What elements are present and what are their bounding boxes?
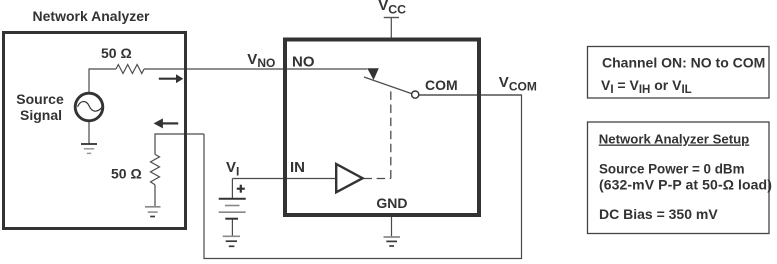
Network Analyzer box: [4, 33, 186, 229]
wire battery to ground: [231, 219, 233, 236]
ground (below R2): [145, 207, 161, 217]
svg-text:IN: IN: [290, 159, 305, 176]
svg-text:DC Bias = 350 mV: DC Bias = 350 mV: [599, 206, 718, 222]
wire source top to resistor R1: [89, 69, 116, 94]
svg-text:Network Analyzer Setup: Network Analyzer Setup: [599, 132, 749, 147]
svg-text:GND: GND: [376, 195, 407, 211]
svg-text:COM: COM: [425, 77, 458, 93]
wire VI node down to battery: [231, 179, 233, 199]
note box 1: [588, 47, 770, 99]
arrow left (return direction): [163, 122, 179, 124]
resistor R1 (horizontal zigzag): [116, 65, 144, 74]
dashed control line horizontal: [364, 178, 391, 180]
dashed control line vertical: [390, 89, 392, 179]
svg-text:Source Power = 0 dBm: Source Power = 0 dBm: [599, 162, 745, 177]
note box 2: [588, 122, 770, 234]
svg-text:VCC: VCC: [378, 0, 406, 16]
ground (below GND pin): [384, 237, 401, 246]
switch blade: [364, 77, 412, 94]
svg-text:50 Ω: 50 Ω: [111, 166, 142, 182]
source V1 (AC source circle): [75, 93, 103, 121]
svg-text:Source: Source: [16, 91, 64, 107]
svg-text:50 Ω: 50 Ω: [101, 45, 132, 61]
svg-text:(632-mV P-P at 50-Ω load): (632-mV P-P at 50-Ω load): [599, 177, 772, 193]
battery V2 plus sign: [237, 188, 245, 190]
svg-text:Channel ON: NO to COM: Channel ON: NO to COM: [602, 54, 765, 70]
buffer U1a (triangle): [336, 164, 362, 192]
switch IC U1 box: [285, 40, 479, 216]
svg-text:Signal: Signal: [20, 107, 62, 123]
wire node to R2 top: [155, 134, 204, 154]
svg-text:Network Analyzer: Network Analyzer: [33, 8, 151, 24]
svg-text:NO: NO: [292, 54, 315, 71]
switch contact (filled triangle): [367, 68, 379, 80]
resistor R2 (vertical zigzag): [151, 154, 160, 184]
switch pole circle: [412, 91, 419, 98]
wire source bottom to ground: [88, 121, 90, 145]
arrow right (source direction): [159, 78, 177, 80]
wire VI to IN buffer: [232, 178, 336, 180]
wire VCC lead: [390, 18, 392, 42]
battery V2 (DC source): [219, 199, 246, 219]
wire GND pin down: [391, 217, 393, 237]
wire return loop COM to analyzer: [204, 95, 522, 259]
ground (below source): [81, 144, 97, 153]
wire COM out of switch: [419, 94, 521, 96]
wire R2 bottom to ground: [154, 185, 156, 206]
wire R1 to NO pin: [144, 68, 367, 70]
ground (below battery): [223, 236, 240, 246]
